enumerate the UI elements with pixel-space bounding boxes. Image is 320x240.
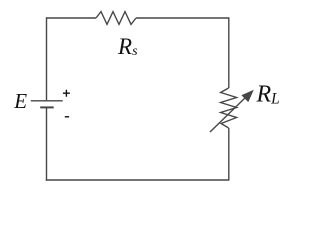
resistor Rs (96, 12, 136, 25)
svg-text:Rs: Rs (117, 34, 138, 59)
RL wiper arrowhead (241, 90, 253, 102)
RL wiper arrow shaft (210, 97, 247, 133)
wire bottom segment (46, 179, 230, 181)
svg-text:RL: RL (256, 81, 280, 107)
wire top-right segment (136, 17, 229, 19)
battery minus sign (65, 116, 69, 118)
wire left lower segment (46, 108, 48, 181)
battery plus sign (63, 90, 70, 97)
battery E positive plate (long) (31, 100, 63, 102)
wire left upper segment (46, 17, 48, 100)
battery E negative plate (short thick) (40, 106, 54, 108)
wire right lower segment (228, 128, 230, 180)
resistor RL (variable) (221, 88, 237, 128)
wire right upper segment (228, 17, 230, 88)
svg-text:E: E (13, 89, 27, 113)
wire top-left segment (47, 17, 97, 19)
